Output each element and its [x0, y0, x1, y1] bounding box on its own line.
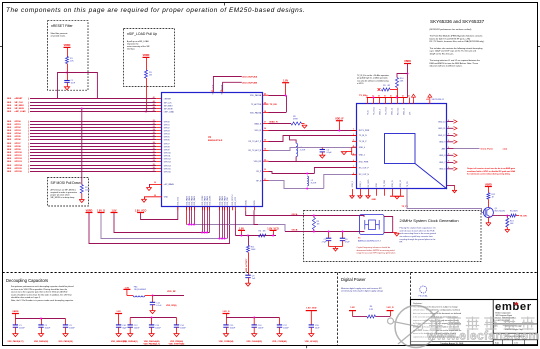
wire VBRD to R1: [67, 48, 69, 57]
digital power section divider left: [337, 273, 339, 346]
svg-text:SIF MOSI Pull Down: SIF MOSI Pull Down: [51, 181, 81, 185]
svg-text:VDD_RF: VDD_RF: [254, 161, 262, 163]
svg-text:GPIO0: GPIO0: [15, 121, 22, 123]
svg-text:3: 3: [353, 140, 354, 142]
svg-text:pin pulled high for +0 dBm ope: pin pulled high for +0 dBm operation.: [357, 77, 388, 80]
svg-text:1.8V: 1.8V: [283, 80, 288, 83]
svg-text:RX_OUT_N: RX_OUT_N: [359, 174, 370, 176]
power symbol 1.8V_D (R4): [386, 307, 394, 317]
svg-text:41: 41: [153, 96, 155, 99]
wire 1.8V_D decoupling rail: [226, 317, 280, 319]
svg-text:range for accurate RF frequenc: range for accurate RF frequency generati…: [357, 252, 396, 255]
svg-text:56pF: 56pF: [122, 328, 127, 330]
wire GPIO14: [7, 164, 162, 167]
wire SIF_CLK: [7, 100, 162, 104]
pin GND wire: [144, 195, 162, 199]
svg-text:VDD_SYNTH(46): VDD_SYNTH(46): [169, 342, 185, 345]
svg-text:GPIO0: GPIO0: [164, 121, 170, 123]
svg-text:nSP_WAKE: nSP_WAKE: [164, 183, 175, 186]
wire Q1 drain out: [490, 215, 510, 217]
wire crystal right side: [384, 217, 393, 233]
svg-text:OSCB: OSCB: [292, 230, 298, 232]
svg-text:GND_2: GND_2: [352, 181, 354, 187]
watermark logo and text: [388, 306, 540, 348]
svg-text:TX_GND: TX_GND: [384, 179, 386, 187]
wire VDD row 2: [130, 317, 176, 319]
ground (C3): [63, 334, 68, 337]
svg-text:nSIF_LOAD Pull Up: nSIF_LOAD Pull Up: [127, 32, 157, 36]
ground (C11): [150, 311, 155, 314]
U2 pad diagonal: [415, 164, 447, 190]
resistor R3 1M: [145, 70, 153, 78]
wire GPIO15: [7, 167, 162, 170]
node RF_N L2 junction: [306, 188, 308, 190]
power symbol 1.8V (FB1): [123, 287, 130, 295]
power symbol VBRD (inverter): [485, 183, 492, 186]
svg-text:(SKY65337 performance has not: (SKY65337 performance has not been verif…: [430, 28, 472, 31]
svg-text:combined with a GPIO to disabl: combined with a GPIO to disable RX path …: [467, 170, 516, 173]
resistor R8 49R9: [291, 116, 302, 125]
wire RF_TX_ALT_P: [269, 136, 358, 142]
IC U1 EM250 body: [162, 93, 263, 207]
svg-text:10uF: 10uF: [315, 328, 320, 330]
wire GPIO5: [7, 135, 162, 138]
svg-text:and C6 exact to each other on: and C6 exact to each other on the PCB: [400, 229, 435, 232]
svg-text:39: 39: [264, 102, 266, 104]
svg-text:RX / TX Switch, harmonic filte: RX / TX Switch, harmonic filter, and an …: [430, 40, 485, 43]
24MHz note: [400, 227, 437, 244]
svg-text:GND_11: GND_11: [438, 128, 445, 130]
node RF_P L2 junction: [306, 173, 308, 175]
U2 reference label: [426, 99, 445, 101]
svg-text:sensitivity by reducing the di: sensitivity by reducing the digital supp…: [341, 290, 384, 293]
svg-text:TX_VCC1: TX_VCC1: [373, 107, 375, 115]
inductor L2 8.2nH: [307, 176, 316, 186]
wire R9 node down: [397, 90, 399, 98]
ground (C9): [245, 282, 250, 284]
power symbol VBRD (nSIF_LOAD): [143, 54, 150, 57]
svg-text:10nF: 10nF: [71, 83, 76, 85]
svg-text:100nF: 100nF: [230, 328, 236, 330]
svg-text:RF.: RF.: [400, 242, 403, 244]
svg-text:determined within 40PPM accoun: determined within 40PPM accounting initi…: [357, 249, 396, 252]
wire R12 to Q1: [487, 199, 489, 207]
ground (C12): [128, 334, 133, 337]
power symbol VBRD (decoupling): [12, 311, 19, 319]
svg-text:100pF on the RX_VCC pin.: 100pF on the RX_VCC pin.: [430, 52, 455, 55]
svg-text:1.8V: 1.8V: [112, 209, 117, 212]
svg-text:The components on this page ar: The components on this page are required…: [6, 7, 305, 14]
svg-text:27pF: 27pF: [345, 241, 350, 243]
power symbol 1.8V (R4): [349, 307, 356, 317]
svg-text:1.8V: 1.8V: [116, 311, 121, 313]
wire VBRD to R3: [146, 58, 148, 70]
power symbol VBRD (bottom rail): [86, 209, 93, 212]
U2 left pin stubs and numbers: [352, 128, 357, 174]
ground (BIAS_R): [302, 124, 307, 126]
wire RF_TX_ALT_N: [269, 148, 358, 151]
power symbol 1.8V (VDD_PADSA): [282, 80, 289, 96]
title block address: [496, 311, 516, 322]
svg-text:9: 9: [448, 160, 449, 162]
svg-text:RF_TX_ALT_N: RF_TX_ALT_N: [248, 149, 261, 152]
wire L1 tap: [290, 136, 297, 144]
svg-text:1.8V_D: 1.8V_D: [386, 307, 394, 309]
capacitor C12 100nF: [128, 318, 141, 334]
svg-text:For optimum performance each d: For optimum performance each decoupling …: [11, 285, 73, 288]
svg-text:GPIO2: GPIO2: [15, 127, 22, 129]
svg-text:inductors will tune to differe: inductors will tune to different values.: [430, 65, 463, 68]
svg-text:36: 36: [153, 167, 155, 169]
wire DCCOUPLEB: [223, 82, 258, 90]
svg-text:1 of 1: 1 of 1: [514, 343, 518, 345]
svg-text:36: 36: [264, 128, 266, 130]
svg-text:Output of inverter circuit can: Output of inverter circuit can be tie to…: [467, 167, 516, 170]
svg-text:GPIO9: GPIO9: [15, 149, 22, 151]
svg-text:44: 44: [153, 106, 155, 109]
ground (crystal caps): [333, 248, 338, 250]
svg-text:GND_12: GND_12: [438, 135, 445, 137]
resistor R1 10K: [66, 57, 75, 64]
IC U2 SKY65336 body: [357, 104, 447, 189]
svg-text:Minimize digital supply noise: Minimize digital supply noise and increa…: [341, 287, 382, 290]
net label VDD_FLASH(25): [246, 340, 262, 343]
ember logo: [495, 301, 532, 313]
svg-text:1.8V_VDD: 1.8V_VDD: [306, 307, 317, 309]
wire GPIO12: [7, 157, 162, 160]
svg-text:RF_TX_ALT_P: RF_TX_ALT_P: [249, 140, 262, 143]
svg-text:62R: 62R: [514, 211, 518, 213]
wire 1.8V to R4: [353, 316, 368, 318]
svg-text:FIDUCIAL: FIDUCIAL: [419, 294, 429, 297]
svg-text:38: 38: [264, 111, 266, 113]
svg-text:SIF_MISO: SIF_MISO: [164, 105, 173, 107]
SIF MOSI note: [51, 189, 78, 200]
wire R10 jog: [397, 74, 408, 78]
off-page arrows (U2 right): [454, 120, 458, 171]
net label VDD_PADSA(43): [143, 340, 160, 345]
svg-text:GPIO2: GPIO2: [164, 127, 170, 129]
svg-text:source via to the capacitor pa: source via to the capacitor pad, then to…: [11, 291, 68, 294]
capacitor C3 100nF: [63, 319, 76, 334]
wire R4 to 1.8V_D: [376, 316, 391, 318]
resistor R12 1K: [487, 193, 496, 200]
wire VDD_IF: [269, 130, 358, 132]
svg-text:nRESET: nRESET: [15, 98, 24, 100]
wire L1 to VDD_RF net: [295, 157, 297, 162]
svg-text:Digital Power: Digital Power: [341, 277, 366, 282]
wire GPIO7: [7, 142, 162, 145]
svg-text:GPIO16: GPIO16: [15, 171, 23, 173]
svg-text:VDD_VCO: VDD_VCO: [235, 196, 237, 205]
svg-text:GPIO16: GPIO16: [164, 171, 171, 173]
svg-text:VDD_PADS: VDD_PADS: [193, 195, 196, 205]
svg-text:RF_P: RF_P: [256, 171, 262, 173]
ground (crystal): [394, 232, 399, 234]
ground (C13): [149, 334, 154, 337]
svg-text:GPIO14: GPIO14: [15, 164, 23, 167]
no connect (R9): [378, 88, 381, 91]
node nSIF_LOAD junction: [145, 111, 147, 113]
svg-text:The tuning inductors L1 and L2: The tuning inductors L1 and L2 are requi…: [430, 59, 481, 62]
net label VDD_PADS(26): [34, 340, 49, 343]
svg-text:GPIO6: GPIO6: [164, 139, 170, 141]
svg-text:34: 34: [264, 148, 266, 151]
svg-text:for minimum current draw durin: for minimum current draw during sleep de…: [467, 173, 511, 176]
svg-text:33: 33: [153, 157, 155, 159]
ground (R13): [505, 229, 510, 231]
svg-text:GPIO13: GPIO13: [164, 161, 171, 163]
title block disclaimer text: [413, 302, 462, 339]
ground (C14): [174, 334, 179, 337]
svg-text:35: 35: [153, 164, 155, 166]
svg-text:VDD_FLASH(25): VDD_FLASH(25): [246, 340, 262, 343]
svg-text:35: 35: [264, 140, 266, 142]
wire nRESET loop: [58, 73, 98, 99]
title block title rows: [493, 324, 537, 345]
svg-text:2.2nH: 2.2nH: [300, 149, 306, 151]
net label VDD_PADS(4,17): [7, 340, 23, 343]
ground (SIF MOSI pull down): [79, 199, 84, 201]
svg-text:GND_3: GND_3: [379, 109, 381, 115]
wire crystal ground stub: [393, 232, 397, 234]
annotation box nRESET Filter: [48, 21, 89, 91]
svg-text:42: 42: [153, 100, 155, 103]
svg-text:nRESET Filter: nRESET Filter: [51, 24, 73, 28]
svg-text:RXD_PWR: RXD_PWR: [359, 161, 369, 163]
net label VDD_PADSA(1): [123, 340, 138, 343]
svg-text:TX_IN_N: TX_IN_N: [359, 135, 367, 137]
svg-text:TX_IS_B is set for +20 dBm ope: TX_IS_B is set for +20 dBm operation,: [357, 74, 390, 77]
U1 top pin stubs and numbers: [211, 90, 223, 93]
svg-text:1: 1: [353, 128, 354, 130]
svg-text:caps: 100pF and 15nF caps on t: caps: 100pF and 15nF caps on the TX_VCC …: [430, 50, 476, 53]
svg-text:RX_GND: RX_GND: [368, 179, 370, 187]
svg-text:1.8V_D: 1.8V_D: [222, 311, 230, 313]
resistor R14 62R: [510, 211, 518, 217]
wire GPIO0: [7, 120, 162, 123]
capacitor C9 1uF: [245, 275, 256, 280]
wire 1.8V feed rail: [235, 210, 276, 236]
wire GPIO9: [7, 148, 162, 151]
wire VDD_RF (U1 to U2): [269, 161, 358, 163]
svg-text:1.8V_VCO: 1.8V_VCO: [135, 209, 147, 212]
U2 left pin names: [359, 130, 370, 176]
svg-text:GPIO11: GPIO11: [15, 155, 23, 157]
resistor R10 56K: [396, 78, 405, 88]
svg-text:GPIO5: GPIO5: [164, 136, 170, 138]
note TX_IS_B: [357, 74, 390, 85]
wire ANT: [454, 148, 480, 150]
svg-text:VDD_RF(8): VDD_RF(8): [166, 305, 177, 307]
svg-text:26: 26: [153, 135, 155, 137]
svg-text:TX_EN: TX_EN: [359, 95, 366, 97]
wire R10 to R9: [397, 88, 399, 90]
svg-text:GND_7: GND_7: [439, 162, 445, 164]
svg-text:31: 31: [153, 151, 155, 153]
ground (C17): [277, 334, 282, 337]
svg-text:27pF: 27pF: [322, 241, 327, 243]
svg-text:33: 33: [264, 159, 266, 161]
ground (C18): [309, 334, 314, 337]
svg-text:as close to its VDD PIN as pos: as close to its VDD PIN as possible. Pla…: [11, 288, 68, 291]
svg-text:TX_VCC2: TX_VCC2: [385, 107, 387, 115]
svg-text:VDD_PADSA: VDD_PADSA: [250, 111, 262, 114]
wire OSCB: [254, 210, 364, 232]
wire risers group VDD_PADS: [187, 207, 228, 239]
svg-text:GPIO4: GPIO4: [164, 133, 170, 135]
svg-text:NDC7002N: NDC7002N: [495, 211, 506, 213]
svg-text:37: 37: [264, 122, 266, 124]
svg-text:2.2R: 2.2R: [369, 309, 374, 311]
svg-text:VDD_PRE: VDD_PRE: [227, 196, 229, 205]
ground (Q1): [486, 222, 491, 224]
svg-text:GND: GND: [372, 199, 377, 201]
svg-text:1K@100MHZ: 1K@100MHZ: [134, 289, 147, 291]
U1 right pin names: [248, 94, 262, 182]
svg-text:GND: GND: [164, 197, 169, 199]
svg-text:34: 34: [153, 159, 155, 162]
wire GPIO1: [7, 123, 162, 126]
resistor R6 1M: [259, 231, 267, 237]
svg-text:100nF: 100nF: [283, 328, 289, 330]
wire VDD_PADSA tie: [269, 95, 287, 113]
svg-text:GPIO8: GPIO8: [15, 146, 22, 148]
svg-text:VBRD: VBRD: [12, 311, 19, 313]
svg-text:23: 23: [153, 126, 155, 128]
svg-text:22: 22: [153, 123, 155, 125]
svg-text:TX_B: TX_B: [367, 110, 369, 115]
svg-text:1.8V_D: 1.8V_D: [97, 209, 105, 212]
svg-text:Disclaimer:: Disclaimer:: [413, 302, 423, 305]
power arrow (U2 pin 23): [412, 94, 416, 104]
svg-text:GPIO10: GPIO10: [164, 152, 171, 154]
ground (C1): [13, 334, 18, 337]
wire RF_P: [269, 168, 358, 174]
net label VDD_HCLK(3): [305, 341, 319, 343]
svg-text:9: 9: [448, 167, 449, 169]
ground bracket (GND_4 GND_1): [341, 147, 351, 155]
resistor R4 2.2R: [367, 306, 376, 318]
svg-text:GPIO13: GPIO13: [15, 161, 23, 163]
capacitor C1 10nF: [64, 80, 76, 85]
wire SIF_MOSI: [7, 106, 162, 110]
svg-text:GPIO1: GPIO1: [164, 124, 170, 126]
svg-text:9: 9: [448, 147, 449, 149]
nRESET Filter note: [51, 32, 68, 38]
svg-text:8: 8: [353, 173, 354, 175]
resistor R2 100K: [80, 185, 90, 194]
svg-text:37: 37: [153, 170, 155, 172]
svg-text:32: 32: [264, 169, 266, 171]
wire OSCA: [246, 210, 364, 217]
svg-text:nRESET: nRESET: [164, 98, 172, 100]
svg-text:0.1uF: 0.1uF: [156, 305, 162, 307]
svg-text:EM250-RTS-R: EM250-RTS-R: [208, 140, 223, 142]
wire VDD_RF stub: [152, 291, 185, 297]
svg-text:SIF_MOSI is in deep sleep.: SIF_MOSI is in deep sleep.: [51, 197, 76, 199]
svg-text:1M: 1M: [149, 74, 152, 76]
svg-text:via reduces crystal loop curre: via reduces crystal loop currents from: [400, 235, 434, 238]
svg-text:VDD_PADSA: VDD_PADSA: [250, 94, 262, 97]
wire OSCB return rail: [187, 225, 286, 232]
ground (C2): [38, 334, 43, 337]
svg-text:This includes also contains th: This includes also contains the followin…: [430, 47, 483, 50]
power symbol VBRD (U2): [404, 60, 411, 64]
wire nSIF_LOAD: [7, 109, 162, 113]
svg-text:Note, the IC Pin Number is in: Note, the IC Pin Number is in parens und…: [11, 299, 74, 302]
svg-text:100nF: 100nF: [134, 328, 140, 330]
svg-text:VBRD: VBRD: [86, 209, 93, 212]
svg-text:(DCCOUPLEA: (DCCOUPLEA: [243, 76, 258, 79]
wire R1 to node: [67, 64, 69, 81]
U1 top pin names: [212, 84, 223, 95]
svg-text:VDD_PADS(29): VDD_PADS(29): [58, 340, 73, 343]
svg-text:routes should be no less than: routes should be no less than 10 mils wi…: [11, 293, 72, 296]
svg-text:6: 6: [353, 160, 354, 162]
inductor L1 2.2nH: [296, 143, 306, 156]
svg-text:24MHz System Clock Generation: 24MHz System Clock Generation: [400, 218, 459, 223]
svg-text:GND_8: GND_8: [439, 155, 445, 157]
svg-text:21: 21: [153, 120, 155, 122]
U1 bottom pin names: [178, 194, 256, 206]
wire Q1 source to ground: [487, 217, 489, 223]
svg-text:SKY65336 and SKY65337: SKY65336 and SKY65337: [430, 19, 485, 24]
ground (C16): [252, 334, 257, 337]
resistor R13 10K: [506, 216, 515, 227]
svg-text:GPIO11: GPIO11: [164, 155, 171, 157]
wire C1 to ground: [67, 82, 69, 86]
capacitor C4 0.5pF: [320, 148, 333, 156]
svg-text:VDD_IF: VDD_IF: [335, 118, 344, 121]
capacitor C18 10uF: [309, 325, 321, 334]
node SIF_MOSI tap: [81, 108, 83, 110]
wire BIAS_R: [269, 121, 292, 124]
wire VBRD rail: [89, 207, 230, 244]
svg-text:SIF_MOSI: SIF_MOSI: [164, 108, 173, 110]
U2 top pin names: [367, 107, 411, 115]
ferrite bead FB1: [127, 287, 153, 297]
svg-text:GPIO3: GPIO3: [164, 130, 170, 132]
svg-text:RF_N: RF_N: [256, 180, 262, 182]
ground (nRESET filter): [64, 87, 69, 90]
svg-text:SIF_CLK: SIF_CLK: [15, 102, 24, 104]
svg-text:VDD_RF: VDD_RF: [167, 291, 176, 293]
ground (C4): [320, 155, 325, 158]
svg-text:baluns for both TX and RX/TX R: baluns for both TX and RX/TX RF ports, a…: [430, 37, 471, 40]
power symbol 1.8V_D (decoupling): [222, 311, 230, 318]
svg-text:VDD_CORE: VDD_CORE: [209, 195, 211, 206]
svg-text:GND_14: GND_14: [391, 108, 393, 115]
svg-text:stub: stub: [503, 148, 508, 151]
capacitor C14 100nF: [174, 318, 187, 334]
U2 top pin numbers: [366, 96, 410, 98]
svg-text:100nF: 100nF: [45, 328, 51, 330]
svg-text:NWK_ACTIVITY: NWK_ACTIVITY: [245, 258, 248, 272]
power symbol VDD_IF: [335, 118, 344, 132]
svg-text:TX_PD: TX_PD: [407, 181, 409, 187]
wire VBRD to R12: [487, 187, 489, 193]
svg-text:1.8V: 1.8V: [350, 307, 355, 309]
capacitor C10 56pF: [116, 325, 128, 334]
svg-text:GPIO15: GPIO15: [164, 168, 171, 170]
svg-text:9: 9: [448, 120, 449, 122]
svg-text:VDD_IF: VDD_IF: [254, 130, 262, 132]
svg-text:GPIO6: GPIO6: [15, 139, 22, 141]
svg-text:GPIO15: GPIO15: [15, 168, 23, 170]
svg-text:OSCA: OSCA: [292, 213, 298, 216]
U1 right pin stubs and numbers: [263, 92, 269, 180]
